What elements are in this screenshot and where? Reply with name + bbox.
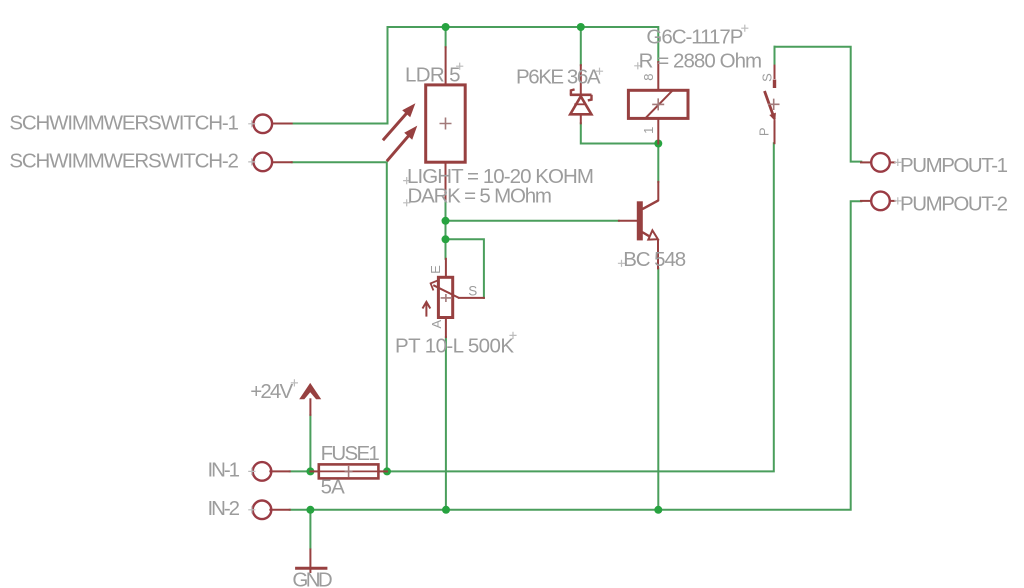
svg-text:BC 548: BC 548	[623, 248, 686, 271]
svg-text:S: S	[760, 73, 775, 82]
svg-text:P6KE 36A: P6KE 36A	[516, 65, 601, 88]
svg-text:IN-2: IN-2	[208, 497, 241, 520]
svg-text:S: S	[468, 284, 477, 299]
svg-text:SCHWIMMWERSWITCH-2: SCHWIMMWERSWITCH-2	[9, 149, 239, 172]
svg-text:E: E	[428, 265, 443, 274]
svg-text:SCHWIMMWERSWITCH-1: SCHWIMMWERSWITCH-1	[9, 111, 239, 134]
svg-text:1: 1	[641, 127, 656, 134]
svg-text:PUMPOUT-2: PUMPOUT-2	[900, 192, 1008, 215]
svg-text:R = 2880 Ohm: R = 2880 Ohm	[639, 50, 763, 73]
svg-text:FUSE1: FUSE1	[321, 442, 380, 465]
svg-text:PT 10-L 500K: PT 10-L 500K	[395, 334, 514, 357]
svg-text:GND: GND	[292, 568, 332, 588]
svg-text:PUMPOUT-1: PUMPOUT-1	[900, 154, 1008, 177]
svg-text:5A: 5A	[321, 475, 346, 498]
svg-text:A: A	[429, 320, 444, 329]
svg-text:DARK = 5 MOhm: DARK = 5 MOhm	[408, 185, 553, 208]
svg-text:8: 8	[641, 74, 656, 81]
svg-text:+24V: +24V	[250, 380, 293, 403]
svg-text:IN-1: IN-1	[208, 459, 241, 482]
svg-text:LDR 5: LDR 5	[405, 64, 461, 87]
svg-text:G6C-1117P: G6C-1117P	[646, 25, 743, 48]
svg-text:P: P	[757, 127, 772, 136]
